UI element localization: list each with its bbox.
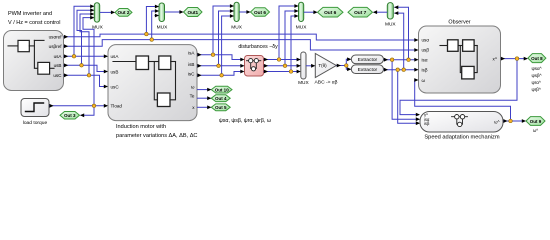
observer inner feedback left xyxy=(460,46,461,73)
motor inner feedback left xyxy=(154,62,157,100)
PWM inner wire top branch xyxy=(34,39,44,41)
wire Tload xyxy=(49,105,107,107)
junction isalpha down xyxy=(390,58,394,62)
arrowhead MUX4 out xyxy=(313,10,317,14)
arrowhead into speed adapt isb xyxy=(416,121,420,125)
speed adapt icon circle 1 xyxy=(455,115,459,119)
arrowhead MUX5 in 2 xyxy=(394,11,398,15)
motor inner block 3 xyxy=(157,93,170,107)
outport Out 8 xyxy=(528,54,546,63)
svg-text:ω: ω xyxy=(191,85,195,90)
arrowhead MUX2 out xyxy=(179,10,183,14)
svg-text:MUX: MUX xyxy=(296,25,307,31)
svg-text:isB: isB xyxy=(188,62,194,67)
mux block MUX2 xyxy=(159,3,165,22)
svg-text:Out 6: Out 6 xyxy=(254,10,266,15)
arrowhead motor x out xyxy=(207,105,211,109)
observer inner wire mid xyxy=(458,45,463,47)
junction isalpha up xyxy=(407,58,411,62)
junction isbeta down xyxy=(396,68,400,72)
junction Tload xyxy=(92,104,96,108)
arrowhead MUX3 in 2 xyxy=(230,9,234,13)
arrowhead MUX3 in 3 xyxy=(230,14,234,18)
PWM inner wire vertical xyxy=(34,40,37,68)
arrowhead MUX2 in 1 xyxy=(155,5,159,9)
wire MUX3 tap 1 xyxy=(213,6,233,55)
arrowhead into MUX6 2 xyxy=(297,64,301,68)
PWM inner block 1 xyxy=(18,40,29,51)
wire usaref bus xyxy=(64,34,418,40)
junction isbeta up xyxy=(402,68,406,72)
wire w^ to Out 9 xyxy=(503,120,525,122)
wire MUX1 tap 3 xyxy=(80,14,94,75)
motor inner block 1 xyxy=(136,56,149,70)
junction MUX3 tap 1 xyxy=(211,53,215,57)
arrowhead into speed adapt isa xyxy=(416,117,420,121)
wire MUX3 tap 2 xyxy=(219,11,234,66)
svg-text:Induction motor with: Induction motor with xyxy=(116,124,166,130)
observer inner wire out xyxy=(474,45,477,47)
svg-text:usβ: usβ xyxy=(422,48,430,53)
arrowhead into observer usb xyxy=(414,48,418,52)
svg-text:usβref: usβref xyxy=(49,44,63,49)
arrowhead usA port xyxy=(64,54,68,58)
svg-text:ω^: ω^ xyxy=(494,120,499,125)
disturbance block xyxy=(245,56,264,77)
svg-text:MUX: MUX xyxy=(385,21,396,27)
outport Out 9 xyxy=(526,117,545,126)
arrowhead into observer w xyxy=(414,78,418,82)
wire MUX3 out xyxy=(239,11,249,13)
svg-text:ω^: ω^ xyxy=(533,128,538,133)
arrowhead usbref port xyxy=(64,44,68,48)
svg-text:Te: Te xyxy=(190,94,195,99)
arrowhead MUX1 out xyxy=(111,11,115,15)
wire MUX4 tap 3 xyxy=(291,16,298,72)
wire motor Te to Out 4 xyxy=(197,97,211,99)
motor inner wire xyxy=(149,61,159,63)
arrowhead into Extractor 1 xyxy=(347,57,351,61)
svg-text:isA: isA xyxy=(188,51,195,56)
motor inner wire xyxy=(113,61,136,63)
arrowhead into Out 7 xyxy=(373,10,377,14)
speed adapt icon loop left xyxy=(456,119,458,124)
svg-text:usC: usC xyxy=(53,73,62,78)
svg-text:T(θ): T(θ) xyxy=(318,63,327,68)
disturbance icon loop right xyxy=(255,63,257,69)
arrowhead MUX2 in 3 xyxy=(155,14,159,18)
junction MUX4 tap 1 xyxy=(277,58,281,62)
wire usbref bus xyxy=(64,40,418,50)
junction w^ xyxy=(509,119,513,123)
PWM inner block 2 xyxy=(38,62,50,74)
arrowhead speed adapt out xyxy=(503,119,507,123)
mux block MUX6 xyxy=(301,52,306,79)
svg-text:isC: isC xyxy=(188,71,195,76)
arrowhead into disturbance 2 xyxy=(240,64,244,68)
wire MUX6 out xyxy=(306,65,315,67)
arrowhead MUX4 in 3 xyxy=(294,14,298,18)
arrowhead into MUX6 3 xyxy=(297,70,301,74)
wire MUX1 out xyxy=(100,11,114,13)
svg-text:parameter variations ΔA, ΔB, Δ: parameter variations ΔA, ΔB, ΔC xyxy=(116,133,197,139)
disturbance icon circle 1 xyxy=(249,59,253,63)
svg-text:MUX: MUX xyxy=(231,25,242,31)
outport Out 2 xyxy=(115,9,132,17)
PWM inner wire xyxy=(8,45,18,47)
svg-text:Out 3: Out 3 xyxy=(64,113,76,118)
svg-text:usB: usB xyxy=(54,63,62,68)
svg-text:Observer: Observer xyxy=(448,20,470,26)
arrowhead MUX1 in 4 xyxy=(90,16,94,20)
arrowhead MUX4 in 1 xyxy=(294,4,298,8)
wire isbeta down to speed adapt xyxy=(398,70,419,124)
junction MUX4 tap 3 xyxy=(289,70,293,74)
wire motor x to Out 5 xyxy=(197,106,211,108)
arrowhead Extractor 2 out xyxy=(384,68,388,72)
arrowhead load torque out xyxy=(49,104,53,108)
svg-text:load torque: load torque xyxy=(23,120,48,126)
wire isC xyxy=(197,72,244,76)
mux block MUX4 xyxy=(299,2,304,21)
svg-text:MUX: MUX xyxy=(298,80,309,86)
arrowhead motor w out xyxy=(207,88,211,92)
junction MUX1 tap 2 xyxy=(80,64,84,68)
svg-text:Out 2: Out 2 xyxy=(118,10,130,15)
load torque block xyxy=(21,99,49,117)
wire usA xyxy=(64,55,108,57)
arrowhead MUX2 in 2 xyxy=(155,9,159,13)
junction MUX3 tap 3 xyxy=(220,74,224,78)
arrowhead disturbance out 1 xyxy=(264,58,268,62)
subsystem block: speed adaptation xyxy=(420,112,503,133)
wire MUX1 tap 1 xyxy=(74,6,94,56)
svg-text:ψsβ^: ψsβ^ xyxy=(532,73,543,78)
svg-text:Extractor: Extractor xyxy=(358,57,378,63)
svg-text:usB: usB xyxy=(111,69,119,74)
wire MUX4 tap 2 xyxy=(285,11,298,66)
arrowhead MUX1 in 2 xyxy=(90,8,94,12)
svg-text:ψrα^: ψrα^ xyxy=(532,80,542,85)
junction MUX2 tap 1 xyxy=(145,32,149,36)
svg-text:usαref: usαref xyxy=(49,35,63,40)
wire MUX4 out xyxy=(304,11,317,13)
svg-text:ψsα^: ψsα^ xyxy=(532,66,543,71)
subsystem block: PWM inverter xyxy=(4,31,64,91)
arrowhead into motor usA xyxy=(104,54,108,58)
disturbance icon line xyxy=(247,60,261,62)
outport Out 6 second xyxy=(318,7,344,17)
arrowhead usC port xyxy=(64,73,68,77)
wire disturbance out 1 xyxy=(264,59,300,61)
wire x^ to Out 8 xyxy=(501,58,528,60)
disturbance icon circle 3 xyxy=(251,67,255,71)
junction T split xyxy=(345,64,349,68)
arrowhead into Extractor 2 xyxy=(347,67,351,71)
wire T out xyxy=(336,65,346,67)
svg-text:PWM inverter and: PWM inverter and xyxy=(8,11,52,17)
gain block T(theta) xyxy=(315,54,336,78)
arrowhead MUX1 in 1 xyxy=(90,4,94,8)
arrowhead into Out 8 xyxy=(524,57,528,61)
junction x^ xyxy=(515,57,519,61)
speed adapt icon circle 3 xyxy=(458,122,462,126)
arrowhead into observer isa xyxy=(414,58,418,62)
extractor block 2 xyxy=(351,65,383,74)
disturbance icon circle 2 xyxy=(254,59,258,63)
arrowhead into motor Tload xyxy=(104,104,108,108)
svg-text:Extractor: Extractor xyxy=(358,67,378,73)
motor inner wire out xyxy=(171,61,176,63)
arrowhead into speed adapt x^ xyxy=(416,113,420,117)
arrowhead into motor usB xyxy=(104,70,108,74)
outport Out1 xyxy=(184,8,203,17)
svg-text:Out 6: Out 6 xyxy=(324,10,337,16)
arrowhead into MUX6 1 xyxy=(297,58,301,62)
observer inner block 1 xyxy=(448,40,459,52)
arrowhead MUX5 in 1 xyxy=(394,5,398,9)
wire split to Extractor 1 xyxy=(346,59,350,65)
arrowhead into observer usa xyxy=(414,38,418,42)
junction MUX1 tap 1 xyxy=(72,55,76,59)
wire isalpha down to speed adapt xyxy=(392,60,419,119)
wire MUX3 tap 3 xyxy=(222,16,234,75)
arrowhead Extractor 1 out xyxy=(384,58,388,62)
svg-text:disturbances −δy: disturbances −δy xyxy=(238,44,278,50)
observer inner wire xyxy=(440,45,448,47)
svg-text:usA: usA xyxy=(54,54,63,59)
svg-text:isβ: isβ xyxy=(424,121,430,126)
svg-text:ψsα, ψsβ, ψrα, ψrβ, ω: ψsα, ψsβ, ψrα, ψrβ, ω xyxy=(219,118,271,124)
wire isbeta up to MUX5 xyxy=(394,13,403,70)
arrowhead motor isC out xyxy=(197,73,201,77)
outport Out 3 xyxy=(60,112,80,120)
wire to Out 3 xyxy=(81,106,95,116)
wire disturbance out 3 xyxy=(264,71,300,73)
wire MUX2 stub 3 xyxy=(155,15,159,17)
junction MUX3 tap 2 xyxy=(217,64,221,68)
subsystem block: observer xyxy=(419,26,501,93)
arrowhead into observer isb xyxy=(414,68,418,72)
svg-text:isβ: isβ xyxy=(422,67,428,72)
arrowhead T out xyxy=(337,64,341,68)
svg-text:Out 8: Out 8 xyxy=(531,56,543,61)
svg-text:Out 9: Out 9 xyxy=(530,119,542,124)
wire isA xyxy=(197,55,244,60)
svg-text:usα: usα xyxy=(422,38,430,43)
junction MUX1 tap 3 xyxy=(87,74,91,78)
arrowhead usaref port xyxy=(64,35,68,39)
mux block MUX5 xyxy=(387,3,393,19)
wire MUX2 tap 2 xyxy=(152,11,159,40)
junction MUX4 tap 2 xyxy=(283,64,287,68)
PWM inner wire xyxy=(29,45,34,47)
outport Out 5 xyxy=(211,104,230,111)
wire isalpha up to MUX5 xyxy=(394,7,408,59)
wire MUX2 tap 1 xyxy=(146,7,158,35)
observer inner block 2 xyxy=(463,40,475,52)
svg-text:usC: usC xyxy=(111,84,120,89)
wire disturbance out 2 xyxy=(264,65,300,67)
PWM inner wire out xyxy=(50,67,54,69)
svg-text:Tload: Tload xyxy=(111,104,123,109)
arrowhead MUX3 out xyxy=(246,10,250,14)
arrowhead MUX3 in 1 xyxy=(230,4,234,8)
svg-text:ABC -> αβ: ABC -> αβ xyxy=(315,79,338,85)
svg-text:Speed adaptation mechanizm: Speed adaptation mechanizm xyxy=(424,134,500,140)
svg-text:Out 10: Out 10 xyxy=(215,87,230,92)
arrowhead usB port xyxy=(64,63,68,67)
svg-text:ψrβ^: ψrβ^ xyxy=(532,87,542,92)
extractor block 1 xyxy=(351,55,383,64)
arrowhead into disturbance 3 xyxy=(240,70,244,74)
subsystem block: induction motor xyxy=(108,45,197,121)
arrowhead disturbance out 2 xyxy=(264,64,268,68)
arrowhead MUX4 in 2 xyxy=(294,9,298,13)
speed adapt icon loop right xyxy=(462,119,464,124)
wire isB xyxy=(197,65,244,67)
wire isbeta xyxy=(384,69,418,71)
outport Out 6 first xyxy=(251,8,270,17)
svg-text:Out 4: Out 4 xyxy=(215,96,227,101)
arrowhead into disturbance 1 xyxy=(240,58,244,62)
wire usB xyxy=(64,65,108,71)
motor inner block 2 xyxy=(159,56,171,70)
arrowhead motor Te out xyxy=(207,96,211,100)
arrowhead observer x^ out xyxy=(501,57,505,61)
junction MUX2 tap 2 xyxy=(150,38,154,42)
speed adapt icon circle 2 xyxy=(460,115,464,119)
svg-text:isα: isα xyxy=(422,57,428,62)
arrowhead MUX1 in 3 xyxy=(90,12,94,16)
wire MUX4 tap 1 xyxy=(279,6,298,60)
wire motor w to Out 10 xyxy=(197,89,211,91)
observer inner feedback right xyxy=(474,46,477,73)
wire split to Extractor 2 xyxy=(346,66,350,70)
motor inner feedback right xyxy=(170,62,176,100)
svg-text:usA: usA xyxy=(111,54,120,59)
wire MUX1 tap 4 xyxy=(83,18,94,106)
arrowhead disturbance out 3 xyxy=(264,70,268,74)
svg-text:MUX: MUX xyxy=(157,24,168,30)
step icon xyxy=(26,103,44,112)
disturbance icon loop left xyxy=(250,63,252,69)
arrowhead motor isA out xyxy=(197,53,201,57)
arrowhead into Out 9 xyxy=(522,119,526,123)
wire MUX2 out xyxy=(165,11,183,13)
wire MUX5 out to Out 7 xyxy=(374,11,388,13)
arrowhead into Out 3 xyxy=(80,113,84,117)
mux block MUX1 xyxy=(94,3,99,22)
speed adapt icon line xyxy=(452,116,468,118)
observer inner block 3 xyxy=(462,66,474,79)
outport Out 4 xyxy=(211,95,230,102)
svg-text:Out 7: Out 7 xyxy=(354,10,367,16)
wire isalpha xyxy=(384,59,418,61)
arrowhead into motor usC xyxy=(104,85,108,89)
mux block MUX3 xyxy=(234,2,239,21)
wire x^ feedback xyxy=(400,59,517,115)
wire MUX1 tap 2 xyxy=(77,10,94,65)
svg-text:V / Hz = const control: V / Hz = const control xyxy=(8,20,60,26)
svg-text:Out1: Out1 xyxy=(187,10,198,15)
arrowhead into T xyxy=(311,64,315,68)
outport Out 7 xyxy=(348,7,373,17)
wire usC xyxy=(64,75,108,86)
svg-text:ω: ω xyxy=(422,78,426,83)
arrowhead motor isB out xyxy=(197,64,201,68)
svg-text:Out 5: Out 5 xyxy=(215,105,227,110)
wire w^ feedback to observer xyxy=(415,80,511,121)
outport Out 10 xyxy=(211,86,232,93)
